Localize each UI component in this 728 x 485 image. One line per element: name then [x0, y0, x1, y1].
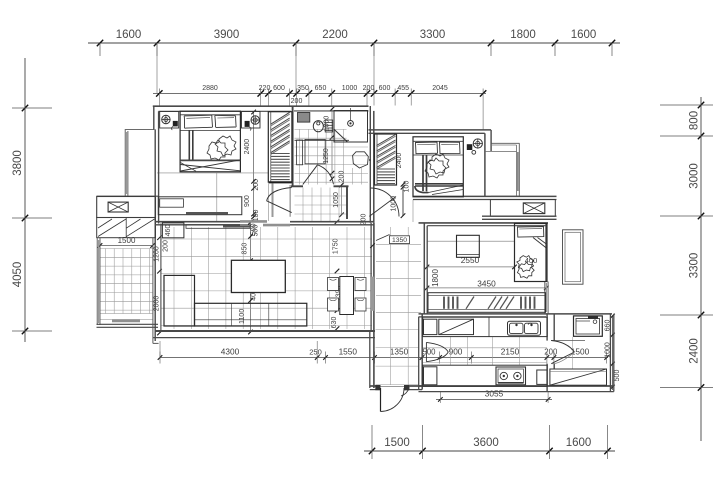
left balcony 1500 dim [100, 245, 153, 247]
hall 1050 dim [341, 185, 343, 215]
WC divider wall [346, 186, 348, 219]
bedroom3 wardrobe strip [428, 293, 546, 313]
living bottom-left corner step [152, 238, 154, 344]
bedroom2 right wall [484, 133, 486, 196]
entry bottom wall with door opening [370, 385, 381, 387]
right balcony right wall [609, 314, 611, 392]
wardrobe2 diagonal hatch [377, 135, 396, 146]
AC band bottom wall [482, 215, 557, 217]
bedroom1-living wall with opening [155, 221, 240, 223]
bed3 fold [533, 238, 547, 249]
svg-text:3450: 3450 [477, 279, 496, 289]
switch bedroom1 right [245, 121, 250, 127]
kitchen top wall [419, 313, 613, 315]
svg-text:2045: 2045 [432, 85, 448, 92]
bedroom3 bed [515, 224, 548, 282]
AC platform top wall [97, 195, 159, 197]
svg-text:1800: 1800 [431, 269, 440, 287]
wardrobe1 shelf bars [271, 153, 290, 155]
left balcony tile grid [104, 249, 106, 314]
wardrobe strip diagonals2 [488, 297, 496, 309]
svg-text:600: 600 [379, 85, 391, 92]
svg-text:100: 100 [404, 181, 411, 193]
bed2 blanket [413, 154, 463, 156]
svg-text:3055: 3055 [485, 389, 504, 399]
bedroom2 lower wall [413, 195, 557, 197]
svg-text:1350: 1350 [390, 346, 409, 356]
svg-text:630: 630 [331, 317, 338, 329]
bedroom1 floor lines [157, 172, 268, 174]
bathroom bottom wall [291, 185, 303, 187]
living-corridor wall [370, 223, 372, 331]
bed2 flowers [428, 154, 449, 174]
upper hall tile grid [302, 188, 304, 222]
svg-text:3300: 3300 [689, 253, 701, 279]
entry door jambs [375, 385, 380, 390]
second dimension row line [153, 92, 486, 94]
wardrobe strip diagonal1 [466, 297, 474, 309]
svg-text:200: 200 [253, 179, 260, 191]
boxed label 1350 [390, 236, 410, 244]
right balcony floor line [572, 337, 574, 369]
svg-text:500: 500 [614, 370, 621, 382]
svg-text:4300: 4300 [221, 346, 240, 356]
bathroom left wall [292, 106, 294, 186]
sofa corner unit [164, 275, 195, 326]
svg-text:3900: 3900 [214, 29, 240, 41]
svg-text:650: 650 [315, 85, 327, 92]
corridor wall tick [370, 243, 375, 248]
bedroom2 floor lines [412, 200, 414, 223]
duct rect outside [563, 230, 584, 284]
bed1 flowers [215, 136, 236, 156]
toilet [313, 121, 323, 132]
svg-text:1100: 1100 [239, 309, 246, 324]
wardrobe strip bars group2 [520, 297, 522, 309]
bathroom vanity rect [297, 140, 303, 165]
left dimension line [24, 58, 26, 342]
dining vertical dim chain [335, 219, 340, 224]
bedroom1 bed [180, 111, 240, 172]
svg-text:250: 250 [309, 347, 322, 356]
right dimension line [700, 97, 702, 441]
svg-text:1000: 1000 [342, 85, 358, 92]
sliding door gray bars [240, 220, 267, 223]
interior bottom dimension chain [160, 357, 608, 359]
svg-text:500: 500 [422, 347, 436, 356]
svg-text:3300: 3300 [420, 29, 446, 41]
svg-text:3800: 3800 [12, 150, 24, 176]
coffee table [231, 260, 285, 292]
bathtub rect [305, 139, 325, 163]
shower area [334, 111, 368, 143]
shower light [350, 108, 352, 121]
living room bottom wall [155, 330, 375, 332]
bed2 fold [429, 185, 464, 193]
bed3 pillow [518, 227, 544, 238]
bed2 pillows [416, 142, 438, 154]
kitchen floor lines [450, 337, 452, 366]
top dimension line [88, 42, 620, 44]
wall bedroom1 left [153, 106, 155, 130]
bedroom2 ceiling lamp [473, 139, 482, 148]
tv shelf strip [186, 225, 250, 229]
hallway corridor tile grid [390, 227, 392, 385]
AC X-box [108, 202, 128, 212]
svg-text:900: 900 [244, 195, 251, 207]
leader line 1350 [376, 235, 390, 241]
kitchen door left swing [425, 342, 427, 361]
sofa long unit [195, 303, 307, 326]
entry threshold [381, 386, 405, 388]
top dim extension lines [156, 43, 158, 93]
wardrobe strip bars group1 [443, 297, 445, 309]
wardrobe1 [268, 112, 292, 182]
svg-text:200: 200 [339, 171, 346, 183]
svg-text:1550: 1550 [339, 346, 358, 356]
entry door [380, 388, 382, 412]
bed1 nightstand right [242, 112, 261, 129]
svg-text:200: 200 [544, 347, 558, 356]
hall-bedroom3 left wall [423, 223, 425, 314]
bedroom3 window [544, 282, 546, 314]
bed1 lamp right [251, 116, 259, 124]
bedroom2 balcony [491, 142, 520, 144]
svg-text:500: 500 [253, 225, 260, 237]
svg-text:1800: 1800 [510, 29, 536, 41]
living room tile grid [173, 227, 175, 329]
wall top exterior [153, 105, 369, 107]
kitchen bottom exterior wall [419, 385, 614, 387]
bed3 flowers [517, 256, 534, 272]
bedroom3 desk [457, 235, 480, 257]
svg-text:850: 850 [242, 243, 249, 255]
bedroom2 door swing [371, 188, 400, 217]
wardrobe1 diagonal hatch [271, 112, 290, 124]
bathroom-bedroom2 divider wall [369, 106, 371, 223]
svg-text:455: 455 [397, 85, 409, 92]
svg-text:4050: 4050 [12, 262, 24, 288]
svg-text:1350: 1350 [392, 237, 407, 244]
left hatch band [97, 218, 156, 238]
dining table [340, 277, 354, 315]
svg-text:1500: 1500 [384, 437, 410, 449]
balcony hatched box [550, 369, 607, 385]
kitchen stove [496, 367, 526, 385]
bathroom sink counter [298, 113, 310, 123]
wardrobe2 [375, 134, 397, 185]
AC platform box [97, 197, 156, 218]
kitchen right wall lower [546, 364, 548, 392]
washing machine [574, 316, 603, 336]
bedroom2 top wall [369, 129, 492, 131]
svg-text:600: 600 [273, 85, 285, 92]
window recess left [125, 129, 154, 131]
kitchen right wall upper [546, 314, 548, 341]
svg-text:3000: 3000 [689, 163, 701, 189]
cabinet 460 under wall [162, 223, 184, 238]
svg-text:2200: 2200 [322, 29, 348, 41]
kitchen top counter [423, 317, 548, 336]
bedroom3 floor lines [427, 240, 515, 242]
WC hexagon basin [353, 152, 369, 168]
left balcony bottom wall [97, 323, 159, 325]
bed1 lamp left [162, 115, 170, 123]
svg-text:1600: 1600 [571, 29, 597, 41]
kitchen counter divider [488, 317, 490, 336]
kitchen 3055 dimension [436, 398, 552, 400]
svg-text:200: 200 [361, 214, 368, 226]
bed1 fold [181, 160, 241, 171]
second row extension lines to wall [158, 93, 160, 105]
svg-text:200: 200 [363, 85, 375, 92]
corridor wall gray band [371, 277, 374, 311]
kitchen sink [508, 321, 541, 335]
svg-text:200: 200 [291, 98, 303, 105]
svg-text:1750: 1750 [333, 238, 340, 254]
svg-text:200: 200 [163, 240, 170, 252]
bed1 nightstand left [160, 112, 179, 129]
svg-text:2400: 2400 [244, 139, 251, 155]
bed1 pillows [184, 115, 212, 128]
switch bedroom1 left [173, 121, 178, 127]
bottom dimension line [364, 450, 615, 452]
entry left wall [369, 331, 371, 388]
bathroom door swing [303, 165, 318, 185]
living room vertical dim chain [250, 222, 252, 332]
switch bedroom2 [467, 144, 473, 150]
bedroom2 door dim chain [402, 184, 404, 216]
svg-text:3600: 3600 [473, 437, 499, 449]
right balcony vertical dim chain [612, 316, 614, 390]
right X-box [523, 203, 545, 214]
svg-text:1000: 1000 [324, 116, 331, 132]
kitchen bottom counter [423, 365, 548, 386]
left balcony window [96, 238, 98, 325]
svg-text:800: 800 [689, 111, 701, 130]
kitchen door right swing [551, 340, 585, 342]
svg-text:2400: 2400 [689, 338, 701, 364]
svg-text:1600: 1600 [566, 437, 592, 449]
bathroom tile grid [299, 129, 301, 184]
svg-text:350: 350 [297, 85, 309, 92]
svg-text:1600: 1600 [116, 29, 142, 41]
wardrobe1 bottom dark bar [269, 181, 292, 183]
wardrobe2 shelf bars [377, 168, 395, 170]
bedroom1 vertical dim chain [253, 112, 255, 218]
bathroom vertical dim chain [331, 109, 333, 179]
bedroom1 door gray dim bar [272, 184, 274, 218]
balcony threshold gray bar [112, 319, 140, 322]
kitchen fridge box [424, 319, 437, 334]
svg-text:460: 460 [165, 225, 172, 237]
svg-text:2880: 2880 [202, 85, 218, 92]
svg-text:220: 220 [259, 85, 271, 92]
kitchen diagonal box [439, 319, 474, 334]
bedroom1 folding door [289, 185, 291, 217]
kitchen box bottom-right [537, 370, 547, 384]
bedroom3 top wall [419, 222, 549, 224]
svg-text:2550: 2550 [461, 255, 480, 265]
svg-text:100: 100 [253, 209, 260, 221]
dining chairs [328, 278, 339, 291]
kitchen box bottom-left [424, 367, 437, 385]
left wall dims 1200 2000 [157, 235, 162, 240]
bedroom3 right wall [545, 223, 547, 282]
towel radiator [325, 120, 333, 132]
kitchen left wall [418, 317, 420, 390]
wall living left inner [160, 224, 162, 331]
bed1 blanket lines [180, 129, 240, 131]
bedroom1 bottom cabinet [158, 197, 242, 215]
bedroom2 bed [413, 137, 463, 197]
AC band right [490, 200, 555, 217]
